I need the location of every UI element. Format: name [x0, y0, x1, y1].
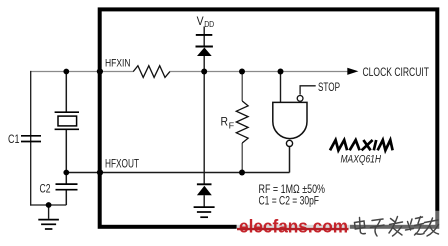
char zi — [371, 219, 385, 236]
wire crystal bottom stem — [65, 129, 67, 172]
NAND gate U2 body (points down) — [273, 102, 307, 138]
diode D1 (ESD clamp to VDD): cathode bar + triangle — [196, 46, 213, 48]
resistor (unlabeled series, HFXIN) — [133, 66, 170, 78]
char shao — [406, 217, 425, 236]
wire ESD vertical (diode D1 anode down through HFXOUT to diode D2) — [203, 56, 205, 185]
wire STOP input (bubble up and right) — [300, 86, 316, 95]
IC boundary box U1 MAXQ61H — [100, 9, 438, 226]
char fa — [389, 217, 403, 237]
svg-text:F: F — [229, 121, 235, 130]
watermark strikethrough line — [237, 228, 349, 230]
crystal Y1 bottom plate — [55, 128, 79, 130]
svg-text:C2: C2 — [40, 182, 51, 196]
wire crystal top stem — [65, 72, 67, 113]
NAND output bubble — [286, 140, 292, 146]
svg-text:STOP: STOP — [318, 80, 340, 94]
node junction RF/HFXOUT — [239, 170, 245, 176]
svg-text:elecfans.com: elecfans.com — [239, 216, 348, 237]
svg-text:V: V — [197, 16, 204, 28]
diode D2 (ESD clamp to GND): cathode bar + triangle — [197, 183, 212, 185]
capacitor C2 plates — [56, 183, 78, 185]
svg-text:CLOCK CIRCUIT: CLOCK CIRCUIT — [363, 65, 430, 79]
svg-text:DD: DD — [204, 20, 214, 29]
MAXIM logo — [330, 140, 393, 150]
wire HFXIN net horizontal (resistor to clock arrow) — [170, 71, 348, 73]
node junction NAND input/HFXIN — [278, 69, 284, 75]
ground (inside box, below diode D2) — [194, 207, 215, 217]
wire C2 top stem — [65, 173, 67, 185]
svg-text:R: R — [221, 117, 229, 129]
crystal Y1 top plate — [55, 111, 79, 113]
svg-text:C1 = C2 = 30pF: C1 = C2 = 30pF — [259, 194, 320, 208]
svg-text:MAXQ61H: MAXQ61H — [341, 154, 382, 166]
wire HFXOUT net horizontal — [66, 172, 289, 174]
wire VDD rail bar to diode cathode — [203, 35, 205, 47]
watermark translucent backing (lightens box border) — [237, 211, 350, 246]
node HFXOUT pin dot on box edge — [97, 169, 103, 175]
wire VDD stem above rail bar — [203, 27, 205, 36]
char dian — [355, 218, 366, 234]
NAND input bubble (STOP, active low) — [297, 96, 303, 102]
node HFXIN pin dot on box edge — [97, 68, 103, 74]
wire RF bottom stem — [241, 143, 243, 173]
wire C1 branch vertical — [30, 71, 32, 206]
wire HFXIN net horizontal (left segment outside box to resistor) — [31, 71, 134, 73]
char you — [424, 218, 439, 236]
wire ground stem (left) — [48, 205, 50, 219]
clock output arrow — [347, 68, 358, 75]
node junction diode D1/HFXIN — [201, 69, 207, 75]
VDD rail bar — [196, 34, 213, 36]
node junction RF/HFXIN — [239, 69, 245, 75]
wire NAND output down to HFXOUT — [289, 147, 291, 173]
node junction ground/C1-C2 — [46, 202, 52, 208]
node junction crystal/HFXIN — [63, 69, 69, 75]
node junction crystal-C2/HFXOUT — [63, 170, 69, 176]
capacitor C1 plates — [21, 135, 41, 137]
crystal Y1 body — [58, 116, 77, 126]
wire bottom horizontal C1 to C2 — [30, 204, 66, 206]
svg-text:HFXIN: HFXIN — [105, 58, 131, 70]
wire bottom diode anode to ground — [203, 195, 205, 207]
resistor RF zigzag — [236, 101, 248, 143]
wire RF top stem — [241, 72, 243, 102]
wire NAND left input vertical — [280, 72, 282, 103]
svg-text:HFXOUT: HFXOUT — [105, 156, 139, 170]
svg-text:C1: C1 — [8, 132, 20, 146]
watermark Chinese characters (calligraphic approximations) — [355, 217, 439, 237]
ground (left, C1/C2 junction) — [38, 220, 59, 229]
wire C2 bottom stem — [65, 190, 67, 205]
